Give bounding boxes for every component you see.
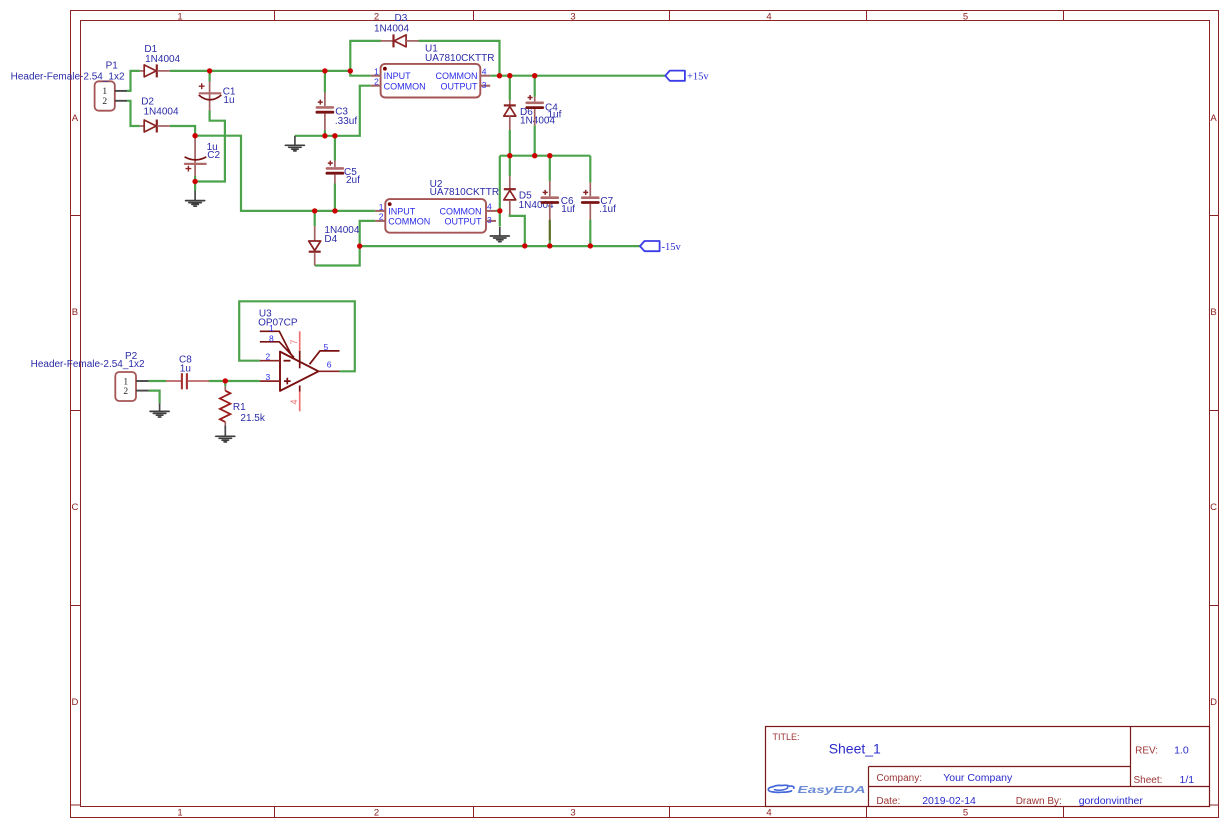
capacitor C7 polarized [582, 183, 598, 220]
wire C3 bottom [324, 131, 326, 136]
svg-text:1: 1 [177, 12, 182, 23]
svg-text:1.0: 1.0 [1174, 745, 1189, 757]
diode D5 [504, 176, 516, 214]
capacitor C1 polarized [199, 82, 222, 111]
svg-text:2: 2 [374, 808, 379, 819]
svg-text:1N4004: 1N4004 [144, 106, 179, 117]
diode D4 [309, 226, 321, 265]
wire C7 top [589, 156, 591, 183]
svg-text:D: D [1210, 697, 1217, 708]
net flag +15v [665, 71, 685, 81]
svg-text:A: A [1210, 113, 1217, 124]
wire C2 node to U2 pin 1 [195, 136, 375, 211]
header P1 [95, 81, 127, 110]
wire C5 top [334, 136, 336, 161]
capacitor C3 polarized [317, 93, 333, 131]
junction mid rail / D5 [507, 153, 512, 158]
wire D6 bottom to mid rail [509, 130, 511, 156]
diode D3 [381, 34, 419, 47]
op-amp U3 OP07CP [260, 331, 340, 411]
svg-text:2: 2 [379, 212, 384, 222]
svg-text:COMMON: COMMON [388, 217, 430, 227]
regulator U1 UA7810CKTTR [371, 64, 490, 98]
wire U2 pin 2 to -15 rail [360, 221, 376, 246]
svg-text:Drawn By:: Drawn By: [1016, 796, 1062, 807]
title block [766, 727, 1210, 807]
svg-text:OUTPUT: OUTPUT [445, 217, 483, 227]
svg-text:1: 1 [379, 202, 384, 212]
svg-text:Sheet_1: Sheet_1 [829, 740, 881, 756]
U3 plus sign [284, 378, 291, 385]
wire C4 bottom to mid rail [534, 125, 536, 155]
svg-text:Header-Female-2.54_1x2: Header-Female-2.54_1x2 [11, 71, 125, 82]
wire U2 pin 4 stub connect [496, 210, 500, 212]
wire C3 top [324, 71, 326, 93]
junction mid rail / C4 bottom [532, 153, 537, 158]
wire mid rail [500, 155, 591, 157]
svg-text:3: 3 [482, 80, 487, 90]
svg-text:2: 2 [102, 97, 107, 107]
svg-text:1u: 1u [223, 95, 234, 106]
junction -15 rail / C7 [588, 243, 593, 248]
svg-text:C2: C2 [207, 150, 220, 161]
svg-text:C: C [1210, 502, 1217, 513]
svg-text:D4: D4 [324, 234, 337, 245]
svg-text:2: 2 [374, 12, 379, 23]
svg-text:R1: R1 [233, 402, 246, 413]
svg-text:TITLE:: TITLE: [773, 732, 800, 742]
svg-text:Company:: Company: [876, 773, 922, 784]
wire D4 top [314, 211, 316, 226]
junction -15 rail / D5 [522, 243, 527, 248]
svg-text:+15v: +15v [687, 72, 709, 83]
svg-text:3: 3 [487, 215, 492, 225]
svg-text:EasyEDA: EasyEDA [798, 785, 866, 796]
svg-text:2: 2 [123, 387, 128, 397]
regulator U2 UA7810CKTTR [375, 199, 496, 233]
svg-text:D: D [71, 697, 78, 708]
svg-text:7: 7 [289, 339, 299, 344]
wire D2 cathode to C2 top node [170, 126, 195, 136]
svg-text:2: 2 [374, 77, 379, 87]
wire C2 bottom stub [194, 176, 196, 182]
wire C6 bottom overlapped segment [549, 220, 551, 241]
junction common rail / C3 bottom [322, 133, 327, 138]
wire P1 pin2 to D2 [127, 101, 140, 126]
svg-text:3: 3 [570, 808, 575, 819]
svg-text:gordonvinther: gordonvinther [1079, 795, 1144, 807]
wire D5 top [509, 156, 511, 177]
EasyEDA logo [768, 785, 794, 792]
wire -15v rail [360, 245, 641, 247]
ground under R1 [224, 425, 226, 436]
junction input rail / D3 [348, 68, 353, 73]
capacitor C2 polarized flipped [185, 136, 207, 176]
wire C1 top [209, 71, 211, 82]
svg-text:4: 4 [487, 202, 492, 212]
wire C5 bottom [334, 184, 336, 211]
svg-text:COMMON: COMMON [384, 81, 426, 91]
junction +15 rail / C4 [532, 73, 537, 78]
header P2 [115, 372, 148, 401]
svg-text:.33uf: .33uf [335, 116, 357, 127]
capacitor C4 polarized [527, 95, 543, 125]
junction mid rail / C6 top [547, 153, 552, 158]
wire into U1 pin 1 [350, 71, 371, 76]
ground under P2 pin2 [159, 403, 161, 411]
wire input rail from D1 cathode to U1 [170, 70, 350, 72]
wire +15v rail from U1 pin 4 [490, 75, 665, 77]
svg-text:1N4004: 1N4004 [374, 23, 409, 34]
svg-text:B: B [1210, 307, 1216, 318]
junction -15 rail / C6 [547, 243, 552, 248]
svg-text:4: 4 [289, 399, 299, 404]
svg-text:P1: P1 [106, 60, 119, 71]
svg-text:8: 8 [269, 333, 274, 343]
svg-text:A: A [72, 113, 79, 124]
svg-text:Date:: Date: [876, 796, 900, 807]
svg-text:Header-Female-2.54_1x2: Header-Female-2.54_1x2 [31, 359, 145, 370]
wire U3 feedback loop pin2 to pin6 [239, 301, 355, 371]
svg-text:COMMON: COMMON [440, 206, 482, 216]
svg-text:2: 2 [266, 351, 271, 361]
junction C2 top node [192, 133, 197, 138]
wire D3 left branch [350, 41, 381, 71]
net flag -15v [640, 241, 660, 251]
svg-text:21.5k: 21.5k [240, 413, 265, 424]
wire C8 to U3 pin 3 [209, 380, 260, 382]
svg-text:1/1: 1/1 [1180, 774, 1195, 786]
svg-text:4: 4 [482, 66, 487, 76]
junction input rail / C1 [207, 68, 212, 73]
junction input rail / C3 [322, 68, 327, 73]
svg-text:OP07CP: OP07CP [258, 318, 298, 329]
wire D6 top [509, 76, 511, 100]
wire D3 right branch to +15 rail [418, 41, 499, 76]
U1 pin1 marker dot [383, 67, 387, 71]
svg-text:1: 1 [123, 377, 128, 387]
svg-text:Sheet:: Sheet: [1134, 775, 1163, 786]
svg-text:2019-02-14: 2019-02-14 [922, 795, 976, 807]
junction -15 rail / U2 pin2 / D4 [357, 243, 362, 248]
svg-text:Your Company: Your Company [943, 772, 1013, 784]
wire P2 pin1 to C8 [149, 380, 167, 382]
capacitor C5 polarized [327, 161, 343, 184]
svg-text:4: 4 [766, 808, 771, 819]
svg-text:1: 1 [177, 808, 182, 819]
junction +15 rail / D3 [497, 73, 502, 78]
svg-text:1: 1 [269, 323, 274, 333]
wire D4 loop from -15 rail [315, 246, 360, 265]
diode D2 [140, 120, 170, 133]
junction U2 input rail / C5 bottom [332, 208, 337, 213]
wire C7 bottom [589, 220, 591, 246]
svg-text:5: 5 [963, 12, 968, 23]
junction common rail / C5 top [332, 133, 337, 138]
wire C4 top [534, 76, 536, 97]
U2 pin1 marker dot [388, 202, 392, 206]
capacitor C8 [166, 373, 209, 389]
ground under C2 [194, 191, 196, 201]
svg-text:COMMON: COMMON [436, 71, 478, 81]
diode D6 [504, 100, 516, 130]
svg-text:1uf: 1uf [548, 109, 562, 120]
junction U2 input rail / D4 [312, 208, 317, 213]
svg-text:REV:: REV: [1135, 746, 1158, 757]
ground at U2 common [499, 227, 501, 236]
svg-text:2uf: 2uf [346, 175, 360, 186]
svg-text:5: 5 [324, 342, 329, 352]
svg-text:1: 1 [102, 87, 107, 97]
svg-text:4: 4 [766, 12, 771, 23]
svg-text:.1uf: .1uf [599, 204, 616, 215]
junction C8 / R1 / U3 pin3 [223, 378, 228, 383]
junction U2 pin 4 node [497, 208, 502, 213]
svg-text:1: 1 [374, 67, 379, 77]
svg-text:1N4004: 1N4004 [145, 54, 180, 65]
diode D1 [140, 64, 170, 77]
svg-text:3: 3 [266, 372, 271, 382]
wire common rail under C3 to U1 pin 2 [295, 86, 371, 136]
svg-text:5: 5 [963, 808, 968, 819]
resistor R1 [220, 386, 231, 425]
capacitor C6 polarized [542, 181, 558, 220]
svg-text:UA7810CKTTR: UA7810CKTTR [430, 187, 499, 198]
junction C2 bottom node [192, 179, 197, 184]
svg-text:3: 3 [570, 12, 575, 23]
wire P2 pin2 to ground [149, 391, 160, 404]
wire C2 bottom to ground [194, 182, 196, 191]
svg-text:1u: 1u [180, 364, 191, 375]
wire P1 pin1 to D1 [127, 71, 140, 91]
wire C1 bottom loop to C2 bottom [195, 111, 225, 182]
svg-text:6: 6 [327, 360, 332, 370]
wire C6 top [549, 156, 551, 181]
svg-text:INPUT: INPUT [388, 206, 416, 216]
svg-text:1uf: 1uf [561, 204, 575, 215]
wire R1 top stub [224, 381, 226, 386]
svg-text:C: C [71, 502, 78, 513]
svg-text:B: B [72, 307, 78, 318]
wire D5 bottom jog to -15 rail [510, 214, 525, 246]
svg-text:UA7810CKTTR: UA7810CKTTR [425, 53, 494, 64]
wire mid rail left drop to U2 pin 4 and ground [499, 156, 501, 227]
svg-text:-15v: -15v [662, 242, 682, 253]
ground at common rail under C3 [294, 136, 296, 146]
svg-text:OUTPUT: OUTPUT [441, 81, 479, 91]
svg-text:INPUT: INPUT [384, 71, 412, 81]
junction +15 rail / D6 [507, 73, 512, 78]
